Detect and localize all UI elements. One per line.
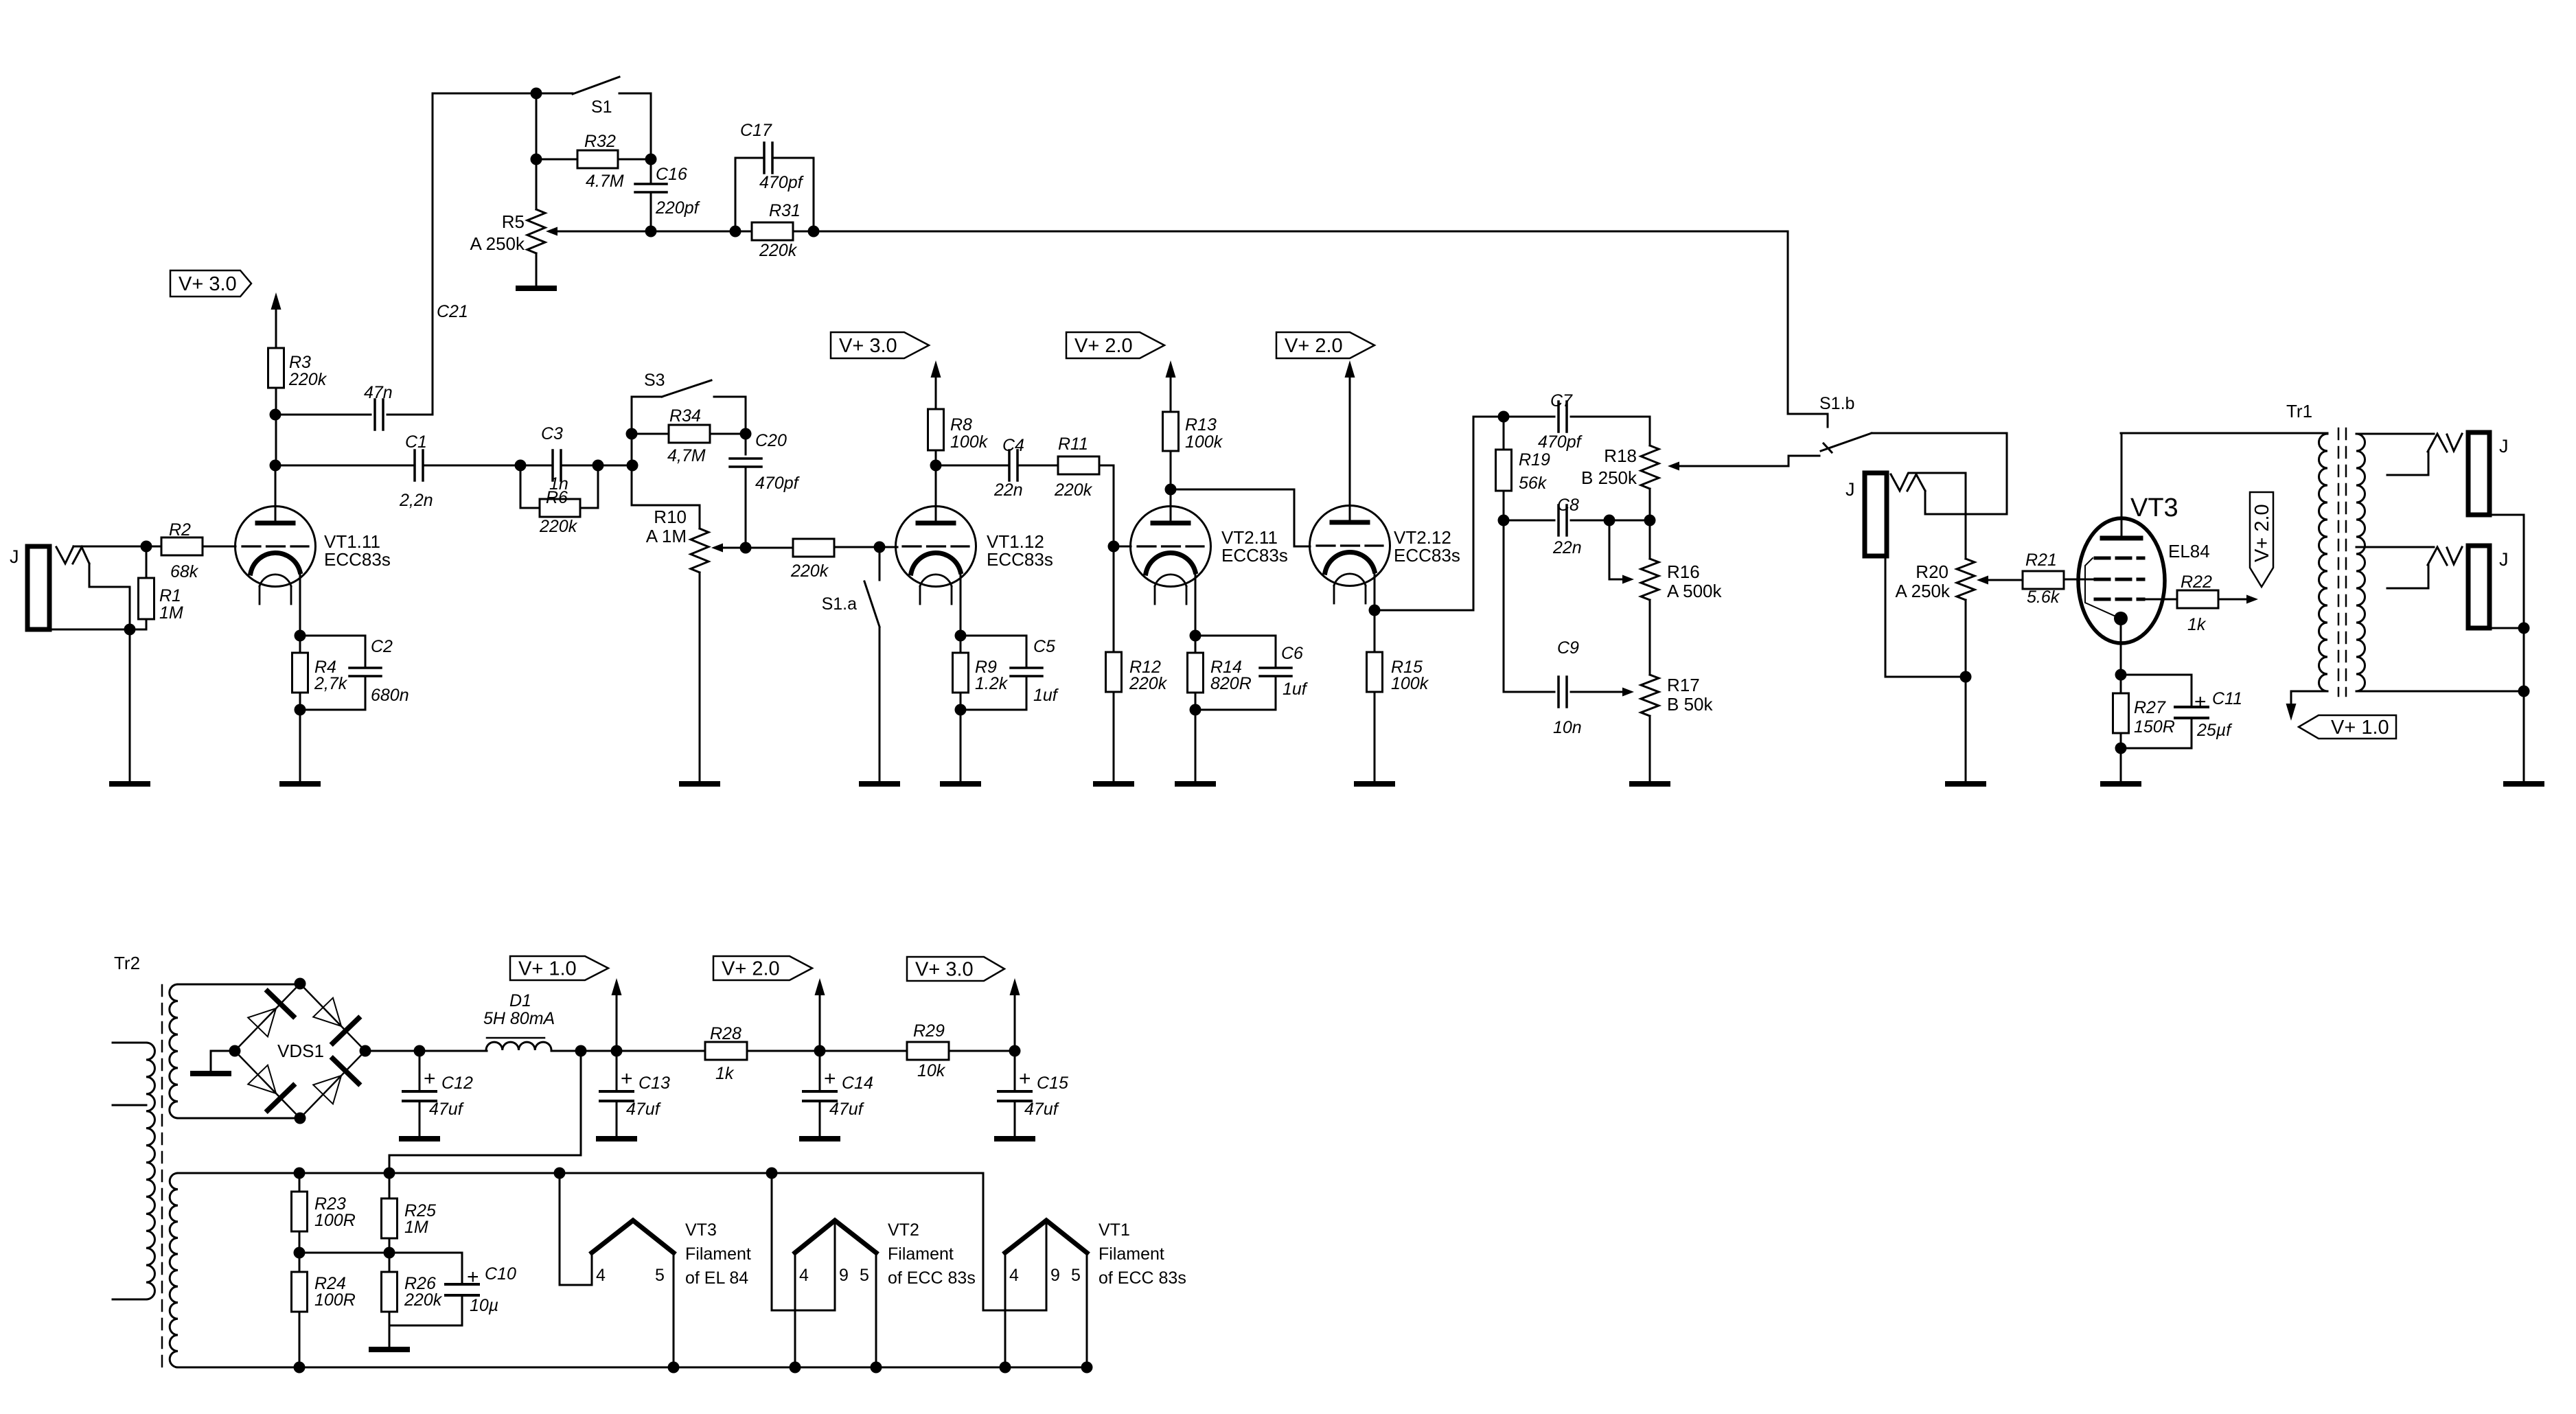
triode VT1.12 bbox=[896, 507, 976, 605]
svg-text:5: 5 bbox=[860, 1266, 869, 1285]
label D1 bbox=[509, 991, 531, 1010]
svg-text:C5: C5 bbox=[1033, 637, 1055, 656]
capacitor C7 bbox=[1504, 402, 1650, 432]
value 220pf bbox=[655, 198, 701, 218]
label VT3 bbox=[2130, 494, 2178, 522]
label R26 bbox=[404, 1274, 436, 1293]
triode VT1.11 bbox=[235, 507, 316, 605]
capacitor C17 bbox=[735, 143, 814, 231]
wire S1.b common loop bbox=[1872, 433, 2007, 514]
value 1M R25 bbox=[404, 1218, 428, 1237]
jack tip contact 2 bbox=[1891, 474, 1925, 491]
resistor R11 bbox=[1017, 456, 1114, 474]
value 4,7M bbox=[667, 446, 706, 465]
switch S1.a bbox=[864, 547, 879, 627]
svg-text:C3: C3 bbox=[541, 424, 563, 443]
node bridge right bbox=[360, 1045, 371, 1057]
VT3 g3-cathode tie bbox=[2085, 558, 2119, 618]
wire top-left from C21 branch to S1 node bbox=[433, 93, 573, 415]
svg-text:47uf: 47uf bbox=[1024, 1100, 1060, 1119]
wire VT3 to ground bbox=[2120, 748, 2122, 784]
jack J out lower bbox=[2468, 546, 2489, 628]
Tr2 primary tap lead bbox=[113, 1104, 146, 1106]
svg-text:C13: C13 bbox=[639, 1074, 670, 1093]
Tr1 primary bbox=[2319, 434, 2327, 691]
wire to ground VT1.11 bbox=[299, 710, 301, 784]
wiper arrow R10 bbox=[711, 544, 746, 553]
svg-text:Tr1: Tr1 bbox=[2286, 401, 2312, 421]
cathode VT2.12 wire bbox=[1374, 571, 1376, 610]
pin 5 VT1 bbox=[1071, 1266, 1081, 1285]
resistor R31 bbox=[752, 222, 814, 240]
label J power bbox=[1845, 479, 1855, 500]
wire cathode to tone stack bbox=[1375, 417, 1504, 610]
svg-text:VDS1: VDS1 bbox=[277, 1041, 324, 1061]
potentiometer R17 bbox=[1641, 675, 1659, 784]
node grid VT2.11 bbox=[1108, 541, 1120, 553]
resistor R19 bbox=[1496, 417, 1512, 520]
svg-text:R34: R34 bbox=[669, 406, 701, 426]
Tr2 HT top lead bbox=[178, 984, 300, 986]
node R16 wiper branch bbox=[1604, 515, 1615, 526]
node R31 right bbox=[808, 226, 820, 237]
svg-text:470pf: 470pf bbox=[1538, 432, 1583, 452]
label VT1.12 bbox=[987, 531, 1053, 570]
node R32 left bbox=[531, 154, 542, 165]
ground C15 bbox=[997, 1136, 1033, 1141]
svg-text:C21: C21 bbox=[437, 302, 468, 321]
svg-text:9: 9 bbox=[839, 1266, 849, 1285]
node C14 bbox=[814, 1045, 826, 1057]
value 47uf C12 bbox=[429, 1100, 465, 1119]
node C15 bbox=[1009, 1045, 1021, 1057]
svg-text:ECC83s: ECC83s bbox=[987, 549, 1053, 570]
label C17 bbox=[740, 121, 772, 140]
arrow V+1.0 up bbox=[612, 978, 622, 1051]
svg-text:C2: C2 bbox=[371, 637, 393, 656]
pin 4 VT2 bbox=[799, 1266, 809, 1285]
ground C13 bbox=[599, 1136, 634, 1141]
svg-text:220pf: 220pf bbox=[655, 198, 701, 218]
value 1uf C6 bbox=[1283, 680, 1309, 699]
svg-text:C4: C4 bbox=[1002, 436, 1024, 455]
filament VT3 roof bbox=[592, 1220, 674, 1253]
wire upper jack sleeve bbox=[2489, 515, 2524, 628]
resistor R32 bbox=[536, 150, 651, 168]
node C3 left bbox=[515, 460, 527, 472]
diode D-TR bbox=[313, 998, 358, 1043]
svg-text:C20: C20 bbox=[755, 431, 787, 450]
svg-text:R27: R27 bbox=[2134, 698, 2166, 717]
value 5.6k bbox=[2027, 588, 2060, 607]
svg-text:R11: R11 bbox=[1058, 434, 1088, 454]
wiper arrow R5 bbox=[546, 227, 651, 236]
cathode VT1.12 wire bbox=[960, 572, 962, 636]
label R16 bbox=[1667, 561, 1700, 582]
label R20 bbox=[1916, 561, 1948, 582]
wire jack sleeve 2 bbox=[1885, 556, 1966, 677]
wire out common to ground bbox=[2523, 628, 2525, 784]
value 4.7M bbox=[586, 172, 624, 191]
resistor R8 bbox=[928, 409, 944, 450]
svg-text:1k: 1k bbox=[715, 1064, 735, 1083]
ground VT1.11 bbox=[282, 781, 318, 787]
Tr1 secondary bbox=[2356, 434, 2365, 691]
node R25 top bbox=[384, 1168, 395, 1179]
svg-text:100k: 100k bbox=[1185, 432, 1223, 452]
svg-text:V+ 2.0: V+ 2.0 bbox=[1074, 335, 1133, 357]
capacitor C4 bbox=[1009, 450, 1017, 480]
label R12 bbox=[1129, 658, 1161, 677]
svg-text:1uf: 1uf bbox=[1283, 680, 1309, 699]
bridge edge TL bbox=[235, 984, 300, 1051]
resistor R25 bbox=[382, 1173, 398, 1253]
potentiometer R20 bbox=[1957, 559, 1975, 677]
value 1uf C5 bbox=[1033, 686, 1059, 705]
value 10n bbox=[1553, 718, 1582, 737]
label R32 bbox=[584, 132, 616, 151]
value 1M bbox=[159, 603, 183, 623]
svg-text:C7: C7 bbox=[1550, 391, 1573, 410]
node 47n junction bbox=[270, 409, 281, 421]
svg-text:EL84: EL84 bbox=[2168, 541, 2210, 561]
label C21 bbox=[437, 302, 468, 321]
wire R11 to VT2.11 grid bbox=[1114, 465, 1131, 546]
resistor R9 bbox=[953, 636, 969, 710]
node cathode bottom VT1.11 bbox=[295, 704, 306, 716]
value 1k R28 bbox=[715, 1064, 735, 1083]
label R14 bbox=[1210, 658, 1242, 677]
svg-text:1uf: 1uf bbox=[1033, 686, 1059, 705]
label VT2 filament bbox=[888, 1220, 976, 1288]
label VT2.11 bbox=[1221, 527, 1288, 566]
wire VT1.12 plate bbox=[935, 450, 937, 522]
svg-text:Filament: Filament bbox=[685, 1244, 751, 1264]
wire VT2.12 plate bbox=[1349, 377, 1351, 522]
label R27 bbox=[2134, 698, 2166, 717]
svg-text:C17: C17 bbox=[740, 121, 772, 140]
switch S3 bbox=[632, 380, 746, 397]
jack J input bbox=[27, 546, 49, 629]
flag V+2.0 vertical bbox=[2250, 492, 2273, 587]
svg-text:R18: R18 bbox=[1604, 445, 1637, 466]
svg-text:V+ 2.0: V+ 2.0 bbox=[1285, 335, 1343, 357]
node C3 right bbox=[593, 460, 604, 472]
jack tip contact upper bbox=[2428, 434, 2462, 452]
node R23 mid bbox=[294, 1247, 306, 1259]
wire jack sleeve bbox=[49, 629, 146, 631]
capacitor C13 bbox=[600, 1051, 633, 1137]
svg-text:C12: C12 bbox=[441, 1074, 473, 1093]
diode D-BR bbox=[313, 1058, 358, 1104]
wire VT1 pin5 bbox=[1086, 1253, 1088, 1367]
filament VT1 roof bbox=[1005, 1220, 1087, 1253]
ground VT3 bbox=[2103, 781, 2139, 787]
label R23 bbox=[314, 1194, 346, 1214]
flag V+2.0 R13 bbox=[1066, 332, 1164, 358]
svg-text:C8: C8 bbox=[1557, 496, 1579, 515]
label R17 bbox=[1667, 675, 1700, 695]
resistor R26 bbox=[382, 1253, 398, 1347]
Tr2 core bbox=[161, 985, 163, 1367]
svg-text:R17: R17 bbox=[1667, 675, 1700, 695]
wire to ground VT1.12 bbox=[960, 710, 962, 784]
svg-text:J: J bbox=[2499, 436, 2509, 456]
svg-text:10µ: 10µ bbox=[470, 1296, 498, 1315]
node VT1 pin4 bbox=[1000, 1362, 1011, 1374]
wire S3 right vertical bbox=[745, 397, 747, 434]
svg-text:+: + bbox=[1019, 1067, 1031, 1090]
svg-text:of ECC 83s: of ECC 83s bbox=[1099, 1268, 1186, 1288]
label C1 bbox=[405, 432, 427, 452]
label B 250k bbox=[1581, 467, 1637, 488]
label R18 bbox=[1604, 445, 1637, 466]
label B 50k bbox=[1667, 694, 1713, 715]
svg-text:1.2k: 1.2k bbox=[975, 674, 1009, 693]
arrow V+2.0 VT2.12 bbox=[1345, 360, 1355, 378]
label A 250k bbox=[1895, 581, 1951, 601]
node A anode VT1.11 bbox=[270, 460, 281, 472]
label VT1.11 bbox=[324, 531, 391, 570]
svg-text:470pf: 470pf bbox=[755, 474, 801, 493]
node VT3 filament branch bbox=[554, 1168, 566, 1179]
arrow V+1.0 down bbox=[2286, 704, 2297, 721]
wire VT2 filament riser bbox=[772, 1173, 835, 1310]
label C6 bbox=[1281, 644, 1303, 663]
resistor R13 bbox=[1163, 412, 1179, 451]
svg-text:56k: 56k bbox=[1519, 474, 1548, 493]
node bridge bottom bbox=[295, 1113, 306, 1124]
wire VT2.11 plate bbox=[1170, 451, 1172, 522]
switch S1 blade bbox=[573, 77, 619, 94]
label R24 bbox=[314, 1274, 346, 1293]
jack shunt wire bbox=[89, 564, 130, 629]
label R19 bbox=[1519, 450, 1550, 470]
svg-text:VT1: VT1 bbox=[1099, 1220, 1130, 1240]
svg-text:V+ 2.0: V+ 2.0 bbox=[2251, 504, 2273, 562]
svg-text:C1: C1 bbox=[405, 432, 427, 452]
node VT2 filament branch bbox=[766, 1168, 778, 1179]
wire long to S1.b bbox=[814, 231, 1828, 427]
svg-text:47uf: 47uf bbox=[626, 1100, 662, 1119]
svg-text:220k: 220k bbox=[1054, 480, 1093, 500]
VT3 cathode node bbox=[2114, 612, 2128, 625]
potentiometer R18 bbox=[1641, 417, 1659, 520]
wire VT2 pin5 bbox=[875, 1253, 877, 1367]
svg-text:680n: 680n bbox=[371, 686, 409, 705]
wire filament bus top bbox=[178, 1172, 983, 1174]
svg-text:ECC83s: ECC83s bbox=[1394, 545, 1460, 566]
svg-text:2,7k: 2,7k bbox=[314, 674, 348, 693]
svg-text:22n: 22n bbox=[993, 480, 1023, 500]
wire R28 to R29 bbox=[820, 1050, 907, 1052]
svg-text:S1.a: S1.a bbox=[822, 594, 858, 614]
Tr2 primary bottom lead bbox=[113, 1299, 146, 1301]
node anode VT2.11 bbox=[1165, 484, 1177, 496]
svg-text:R3: R3 bbox=[289, 353, 311, 372]
capacitor C8 bbox=[1504, 505, 1609, 535]
svg-text:5: 5 bbox=[1071, 1266, 1081, 1285]
wire secondary tap to jack bbox=[2356, 546, 2434, 548]
label C3 bbox=[541, 424, 563, 443]
flag V+2.0 psu bbox=[713, 956, 812, 980]
value 470pf bbox=[759, 173, 805, 192]
resistor R14 bbox=[1188, 636, 1204, 710]
node R27 bottom bbox=[2115, 743, 2127, 754]
wire R2 to VT1.11 grid bbox=[203, 546, 235, 548]
svg-text:820R: 820R bbox=[1210, 674, 1252, 693]
Tr1 core bbox=[2338, 428, 2346, 696]
label R15 bbox=[1391, 658, 1423, 677]
svg-text:+: + bbox=[824, 1067, 836, 1090]
value 22n C4 bbox=[993, 480, 1023, 500]
node C20 wiper junction bbox=[740, 542, 752, 554]
label C7 bbox=[1550, 391, 1573, 410]
node R18 bottom bbox=[1644, 515, 1656, 526]
node R1 top bbox=[141, 541, 152, 553]
node cathode VT1.12 bbox=[955, 630, 967, 642]
svg-text:B 50k: B 50k bbox=[1667, 694, 1713, 715]
label R8 bbox=[950, 415, 972, 434]
label VT2.12 bbox=[1394, 527, 1460, 566]
capacitor C10 bbox=[389, 1253, 479, 1325]
jack shunt upper bbox=[2387, 452, 2428, 475]
svg-text:C9: C9 bbox=[1557, 638, 1579, 658]
svg-text:C10: C10 bbox=[485, 1264, 516, 1284]
capacitor C14 bbox=[803, 1051, 836, 1137]
wire VT1 pin4 bbox=[1004, 1253, 1007, 1367]
pin 4 VT1 bbox=[1009, 1266, 1019, 1285]
node VT3 pin5 bbox=[668, 1362, 680, 1374]
svg-text:J: J bbox=[1845, 479, 1855, 500]
svg-text:V+ 1.0: V+ 1.0 bbox=[518, 958, 577, 980]
capacitor C1 bbox=[415, 450, 423, 480]
node sleeve ground junction bbox=[124, 624, 136, 636]
wire S1.a to ground bbox=[879, 628, 881, 784]
value 47uf C15 bbox=[1024, 1100, 1060, 1119]
value 220k R12 bbox=[1129, 674, 1168, 693]
svg-text:R20: R20 bbox=[1916, 561, 1948, 582]
value 820R bbox=[1210, 674, 1252, 693]
ground output bbox=[2506, 781, 2542, 787]
svg-text:150R: 150R bbox=[2134, 717, 2175, 737]
label VDS1 bbox=[277, 1041, 324, 1061]
label R4 bbox=[314, 658, 336, 677]
VT3 grid g2 bbox=[2095, 598, 2143, 601]
label R6 bbox=[546, 488, 568, 507]
label C20 bbox=[755, 431, 787, 450]
node R34 right bbox=[740, 428, 752, 440]
capacitor C16 bbox=[635, 159, 667, 231]
label C2 bbox=[371, 637, 393, 656]
ground S1.a bbox=[862, 781, 897, 787]
flag V+2.0 VT2.12 bbox=[1276, 332, 1375, 358]
value 100k R8 bbox=[950, 432, 989, 452]
svg-text:R22: R22 bbox=[2181, 572, 2212, 592]
svg-text:47uf: 47uf bbox=[429, 1100, 465, 1119]
resistor R21 bbox=[2023, 571, 2095, 589]
pin 5 VT2 bbox=[860, 1266, 869, 1285]
cathode VT2.11 wire bbox=[1195, 572, 1197, 636]
node C8 left bbox=[1498, 515, 1510, 526]
value 47n bbox=[364, 383, 393, 402]
svg-text:R31: R31 bbox=[769, 201, 801, 220]
wire R20 to ground bbox=[1965, 677, 1967, 784]
wiper R16 bbox=[1609, 520, 1634, 584]
label R2 bbox=[169, 520, 191, 540]
svg-text:D1: D1 bbox=[509, 991, 531, 1010]
label VT1 filament bbox=[1099, 1220, 1186, 1288]
ground VT1.12 bbox=[943, 781, 978, 787]
resistor R1 bbox=[139, 546, 154, 629]
wire Tr1 primary bottom bbox=[2291, 691, 2327, 704]
label Tr1 bbox=[2286, 401, 2312, 421]
value 1.2k bbox=[975, 674, 1009, 693]
svg-text:4: 4 bbox=[799, 1266, 809, 1285]
svg-text:5H 80mA: 5H 80mA bbox=[483, 1009, 555, 1028]
label R22 bbox=[2181, 572, 2212, 592]
svg-text:100R: 100R bbox=[314, 1211, 356, 1230]
wire lower jack sleeve bbox=[2489, 627, 2524, 629]
svg-text:R16: R16 bbox=[1667, 561, 1700, 582]
label A 250k bbox=[470, 233, 525, 254]
label C16 bbox=[656, 165, 687, 184]
resistor R29 bbox=[907, 1042, 1015, 1060]
svg-text:9: 9 bbox=[1050, 1266, 1060, 1285]
inductor D1 bbox=[486, 1038, 551, 1050]
svg-text:4: 4 bbox=[596, 1266, 606, 1285]
VT3 grid g1 bbox=[2095, 578, 2143, 581]
jack J power bbox=[1865, 473, 1887, 556]
resistor R34 bbox=[632, 425, 746, 443]
label C9 bbox=[1557, 638, 1579, 658]
resistor R6 parallel bbox=[520, 465, 598, 517]
node cathode bottom VT2.11 bbox=[1190, 704, 1201, 716]
value 56k bbox=[1519, 474, 1548, 493]
arrow V+3.0 R8 bbox=[931, 360, 941, 409]
wire secondary top to jack bbox=[2356, 433, 2434, 435]
jack tip contact bbox=[56, 546, 89, 564]
ground VT2.11 bbox=[1177, 781, 1213, 787]
plus C10 bbox=[467, 1264, 516, 1288]
ground R5 bbox=[518, 286, 554, 291]
node tone top bbox=[1498, 411, 1510, 423]
diode D-TL bbox=[248, 991, 293, 1036]
svg-text:1M: 1M bbox=[159, 603, 183, 623]
capacitor C11 bbox=[2121, 675, 2208, 748]
diode D-BL bbox=[248, 1065, 293, 1111]
node cathode bottom VT1.12 bbox=[955, 704, 967, 716]
value 220k R3 bbox=[288, 370, 327, 389]
pin 5 VT3 bbox=[655, 1266, 665, 1285]
wire VT2.11 to VT2.12 grid bbox=[1171, 489, 1310, 546]
node VT1 pin5 bbox=[1081, 1362, 1093, 1374]
wire S1 right contact to C16 branch bbox=[619, 93, 651, 159]
svg-text:100k: 100k bbox=[950, 432, 989, 452]
wire to ground VT2.11 bbox=[1195, 710, 1197, 784]
label R21 bbox=[2025, 550, 2057, 570]
value 2,2n bbox=[399, 491, 433, 510]
capacitor C5 bbox=[961, 636, 1042, 710]
value 470pf C7 bbox=[1538, 432, 1583, 452]
Tr2 HT winding bbox=[170, 984, 178, 1118]
value 680n bbox=[371, 686, 409, 705]
plus C11 bbox=[2194, 689, 2242, 713]
flag V+1.0 bbox=[510, 956, 608, 980]
wire bus A to C1 bbox=[275, 465, 415, 467]
node R34 left bbox=[626, 428, 638, 440]
label R10 bbox=[654, 507, 687, 527]
